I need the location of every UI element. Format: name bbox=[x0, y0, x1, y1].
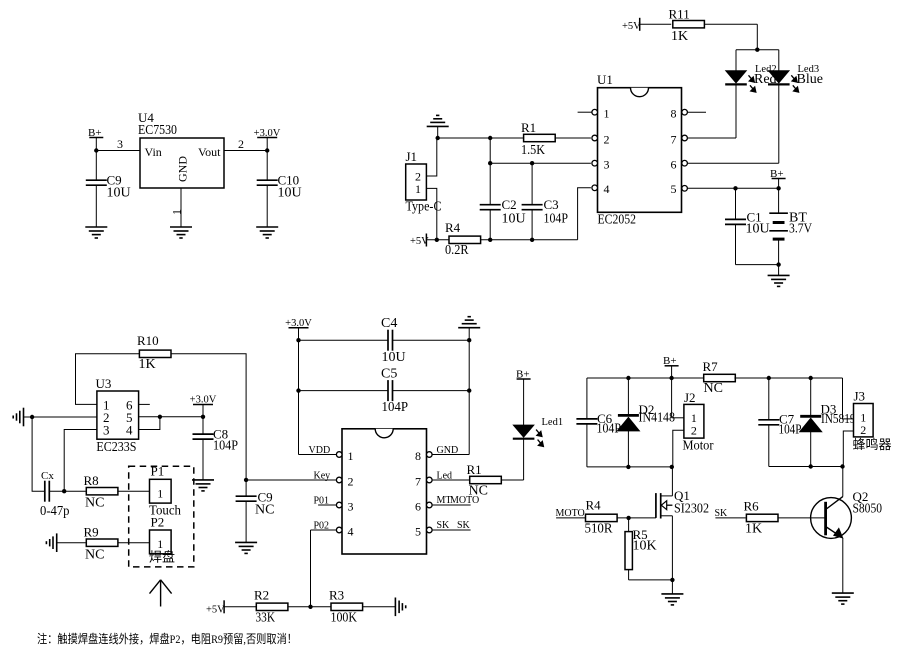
diode D3 IN5819 bbox=[800, 378, 856, 467]
capacitor C3 104P bbox=[522, 163, 569, 240]
junction bbox=[467, 388, 471, 392]
connector J3 buzzer bbox=[853, 389, 892, 453]
junction bbox=[30, 415, 34, 419]
svg-text:Cx: Cx bbox=[41, 470, 54, 482]
wire +3.0V to IC pin 1 VDD bbox=[299, 454, 337, 456]
wire ground rail to IC pin 8 GND bbox=[432, 328, 469, 455]
svg-text:5: 5 bbox=[671, 182, 677, 196]
IC U1 EC2052 bbox=[597, 72, 682, 228]
junction bbox=[776, 186, 780, 190]
capacitor C5 104P bbox=[381, 367, 408, 416]
svg-text:3: 3 bbox=[348, 499, 354, 513]
capacitor C9 bbox=[86, 151, 131, 228]
svg-text:U1: U1 bbox=[597, 72, 613, 87]
capacitor C8 104P bbox=[193, 417, 239, 480]
svg-text:Vin: Vin bbox=[145, 145, 162, 159]
svg-text:IN4148: IN4148 bbox=[639, 411, 676, 426]
svg-text:104P: 104P bbox=[544, 212, 569, 227]
pin 6 of U1 bbox=[682, 160, 688, 166]
resistor R1 NC (Led1) bbox=[467, 462, 502, 499]
svg-text:7: 7 bbox=[415, 474, 421, 488]
svg-text:P02: P02 bbox=[314, 520, 330, 531]
connector J2 Motor bbox=[683, 390, 714, 454]
svg-text:J2: J2 bbox=[684, 390, 696, 405]
IC main controller bbox=[342, 429, 427, 554]
svg-text:+5V: +5V bbox=[206, 605, 225, 616]
wire R1 to Led1 bbox=[501, 439, 523, 480]
svg-text:NC: NC bbox=[704, 381, 723, 396]
junction bbox=[296, 338, 300, 342]
capacitor C5 104P rail wire bbox=[299, 390, 470, 392]
power flag B+ at Led1 bbox=[516, 369, 531, 381]
svg-text:3: 3 bbox=[103, 423, 110, 438]
capacitor C10 bbox=[257, 151, 302, 228]
wire Led3 cathode to U1 pin 6 bbox=[687, 84, 778, 163]
svg-text:1: 1 bbox=[604, 107, 610, 121]
svg-text:R10: R10 bbox=[137, 333, 159, 348]
pin 4 of U1 bbox=[592, 185, 598, 191]
wire R4 to U1 pin 4 bbox=[481, 188, 591, 240]
wire rail to Q2 collector bbox=[842, 467, 844, 497]
svg-text:U3: U3 bbox=[96, 376, 112, 391]
wire U3 pin 5 to +3.0V bbox=[139, 416, 203, 418]
svg-text:IN5819: IN5819 bbox=[821, 412, 856, 427]
svg-text:P1: P1 bbox=[151, 464, 165, 479]
resistor R3 100K bbox=[329, 588, 363, 626]
wire J1 pin 1 to +5V rail bbox=[426, 188, 436, 239]
resistor R2 33K bbox=[254, 588, 288, 626]
junction bbox=[670, 465, 674, 469]
wire J3 pin 2 down to collector rail bbox=[843, 431, 853, 467]
capacitor C4 10U bbox=[381, 316, 406, 365]
ground (inverted) above J1 bbox=[427, 115, 449, 138]
ground bbox=[170, 227, 192, 238]
wire ground to U3 pin 2 bbox=[24, 416, 97, 418]
transistor Q1 SI2302 MOSFET bbox=[656, 488, 709, 519]
svg-text:GND: GND bbox=[437, 445, 459, 456]
svg-text:NC: NC bbox=[85, 496, 104, 511]
pin 6 MT stub with MOTO net label bbox=[427, 495, 480, 508]
regulator U4 EC7530 bbox=[138, 110, 224, 188]
pin 6 stub of U3 bbox=[139, 403, 150, 405]
wire ground net to R1 bbox=[438, 137, 524, 139]
svg-text:焊盘: 焊盘 bbox=[149, 550, 175, 565]
svg-text:1K: 1K bbox=[671, 29, 688, 44]
svg-text:SI2302: SI2302 bbox=[674, 502, 709, 517]
svg-text:1.5K: 1.5K bbox=[521, 143, 545, 158]
svg-text:10U: 10U bbox=[502, 212, 526, 227]
battery BT 3.7V bbox=[769, 188, 812, 264]
wire Q2 emitter to ground bbox=[842, 538, 844, 593]
net label SK wire bbox=[715, 508, 746, 519]
svg-text:2: 2 bbox=[348, 474, 354, 488]
pin 7 of U1 bbox=[682, 135, 688, 141]
junction bbox=[767, 376, 771, 380]
pin 1 (GND) wire of U4 bbox=[170, 188, 184, 227]
svg-text:6: 6 bbox=[415, 499, 421, 513]
net label MOTO wire bbox=[556, 508, 586, 519]
svg-text:MOTO: MOTO bbox=[450, 495, 479, 506]
svg-text:10U: 10U bbox=[278, 186, 302, 201]
svg-text:3: 3 bbox=[604, 158, 610, 172]
svg-text:J1: J1 bbox=[406, 149, 418, 164]
pin 1 of U1 bbox=[578, 109, 598, 115]
resistor R5 10K (vertical) bbox=[625, 518, 657, 580]
svg-text:EC2052: EC2052 bbox=[598, 213, 637, 228]
diode D2 IN4148 bbox=[617, 378, 675, 467]
svg-text:8: 8 bbox=[671, 107, 677, 121]
ground bbox=[832, 593, 854, 604]
svg-text:NC: NC bbox=[85, 548, 104, 563]
resistor R4 510R bbox=[585, 498, 618, 537]
junction bbox=[488, 161, 492, 165]
svg-text:Type-C: Type-C bbox=[406, 200, 442, 215]
ground (right) at R3 bbox=[395, 598, 405, 617]
svg-text:R6: R6 bbox=[744, 499, 760, 514]
svg-text:NC: NC bbox=[255, 503, 274, 518]
svg-text:1: 1 bbox=[170, 209, 184, 215]
capacitor C4 10U rail wire bbox=[299, 339, 470, 341]
svg-text:10K: 10K bbox=[633, 539, 657, 554]
wire R10 to Key net bbox=[171, 354, 246, 480]
capacitor C6 104P bbox=[576, 378, 621, 467]
pin 5 SK stub with SK net label bbox=[427, 520, 471, 533]
capacitor C7 104P bbox=[758, 378, 801, 467]
wire R9 to P2 bbox=[119, 542, 150, 544]
svg-text:6: 6 bbox=[671, 158, 677, 172]
wire R11 to LED rail bbox=[704, 24, 757, 50]
svg-text:1: 1 bbox=[348, 449, 354, 463]
junction bbox=[488, 136, 492, 140]
svg-text:7: 7 bbox=[671, 132, 677, 146]
wire B+ to U4 Vin bbox=[96, 150, 140, 152]
pin 5 of U1 bbox=[682, 186, 688, 192]
junction bbox=[296, 388, 300, 392]
wire B+ vertical to J2 pin 1 bbox=[672, 417, 684, 419]
wire R1 to U1 pin 2 bbox=[555, 137, 591, 139]
svg-text:2: 2 bbox=[604, 132, 610, 146]
svg-text:1: 1 bbox=[415, 182, 421, 196]
resistor R10 1K bbox=[137, 333, 171, 372]
arrow marker below touch pads bbox=[150, 580, 172, 607]
svg-text:C3: C3 bbox=[544, 197, 559, 212]
svg-text:P01: P01 bbox=[314, 495, 330, 506]
junction bbox=[733, 186, 737, 190]
LED Led1 bbox=[513, 417, 563, 447]
junction bbox=[809, 464, 813, 468]
resistor R6 1K bbox=[744, 499, 779, 537]
ground bbox=[85, 227, 107, 238]
svg-text:EC233S: EC233S bbox=[96, 440, 136, 455]
svg-text:GND: GND bbox=[176, 156, 190, 182]
svg-text:10U: 10U bbox=[746, 222, 770, 237]
svg-text:510R: 510R bbox=[585, 522, 614, 537]
junction bbox=[670, 578, 674, 582]
wire rail to Q1 drain bbox=[661, 467, 673, 496]
svg-text:1K: 1K bbox=[745, 522, 762, 537]
pin 3 number of U4 bbox=[117, 137, 123, 151]
ground bbox=[768, 275, 790, 286]
wire Led1 to B+ bbox=[523, 379, 525, 425]
power flag +5V at R2 bbox=[206, 600, 256, 615]
junction bbox=[530, 161, 534, 165]
motor low-side rail wire bbox=[587, 466, 673, 468]
wire ground to R9 bbox=[57, 542, 86, 544]
svg-text:R4: R4 bbox=[445, 220, 461, 235]
junction bbox=[755, 48, 759, 52]
svg-text:SK: SK bbox=[715, 508, 729, 519]
svg-text:2: 2 bbox=[860, 423, 866, 437]
power flag +3.0V bbox=[254, 128, 281, 151]
capacitor C1 10U bbox=[725, 188, 770, 264]
svg-text:Key: Key bbox=[314, 470, 331, 481]
resistor R9 NC bbox=[84, 525, 118, 563]
svg-text:4: 4 bbox=[126, 423, 133, 438]
ground bbox=[256, 227, 278, 238]
touch pad dashed outline bbox=[129, 466, 194, 567]
wire R5 bottom to Q1 source bbox=[629, 579, 673, 581]
resistor R11 1K bbox=[669, 7, 705, 45]
svg-text:Led1: Led1 bbox=[542, 417, 564, 428]
svg-text:SK: SK bbox=[437, 520, 451, 531]
pad P1 Touch bbox=[149, 464, 181, 519]
svg-text:2: 2 bbox=[691, 424, 697, 438]
svg-text:R8: R8 bbox=[84, 473, 99, 488]
svg-text:3.7V: 3.7V bbox=[789, 222, 812, 237]
svg-text:R3: R3 bbox=[329, 588, 344, 603]
resistor R4 0.2R bbox=[445, 220, 481, 258]
power flag +3.0V at C8 bbox=[190, 395, 217, 417]
wire C1/BT bottom to ground bbox=[736, 265, 779, 276]
svg-text:104P: 104P bbox=[779, 423, 802, 438]
junction bbox=[244, 478, 248, 482]
wire U1 pin 5 to B+ bbox=[687, 187, 778, 189]
wire Q1 source to ground bbox=[671, 516, 673, 594]
svg-text:5: 5 bbox=[415, 524, 421, 538]
wire J2 pin 2 down to drain rail bbox=[673, 430, 684, 467]
junction bbox=[62, 489, 66, 493]
wire R2 to R3 bbox=[288, 606, 331, 608]
svg-text:EC7530: EC7530 bbox=[138, 123, 177, 138]
wire U3 pin 3 down to R8 net bbox=[64, 430, 97, 492]
wire U4 Vout to +3.0V bbox=[224, 137, 267, 151]
svg-text:8: 8 bbox=[415, 449, 421, 463]
junction bbox=[201, 415, 205, 419]
LED supply rail wire bbox=[736, 50, 779, 71]
svg-text:Vout: Vout bbox=[198, 145, 221, 159]
transistor Q2 S8050 bbox=[811, 489, 882, 538]
pin 8 GND bbox=[427, 445, 459, 457]
svg-text:104P: 104P bbox=[213, 439, 238, 454]
ground (left) at U3 pin 2 bbox=[13, 408, 23, 427]
svg-text:C5: C5 bbox=[381, 367, 397, 382]
IC U3 EC233S bbox=[96, 376, 139, 455]
svg-text:33K: 33K bbox=[256, 611, 276, 626]
junction bbox=[488, 238, 492, 242]
wire U1 pin 3 net bbox=[490, 162, 591, 164]
svg-text:R1: R1 bbox=[467, 462, 482, 477]
svg-text:10U: 10U bbox=[107, 186, 131, 201]
junction bbox=[840, 464, 844, 468]
pin 7 Led wire to R1 bbox=[427, 470, 470, 483]
svg-text:4: 4 bbox=[348, 524, 354, 538]
junction bbox=[530, 238, 534, 242]
wire U3 pin 4 to pin 5 net bbox=[139, 417, 160, 430]
svg-text:2: 2 bbox=[238, 137, 244, 151]
resistor R7 NC bbox=[703, 359, 736, 396]
svg-text:104P: 104P bbox=[382, 400, 409, 415]
power flag B+ (regulator input) bbox=[88, 127, 103, 151]
pad P2 solder pad bbox=[149, 515, 175, 565]
wire junction down to Cx bbox=[32, 417, 45, 491]
power flag +5V at R11 bbox=[622, 18, 671, 32]
wire R8 to P1 bbox=[119, 490, 150, 492]
svg-text:3: 3 bbox=[117, 137, 123, 151]
capacitor C9 NC bbox=[236, 480, 275, 543]
pin 4 P02 wire bbox=[311, 520, 343, 607]
svg-text:0.2R: 0.2R bbox=[445, 243, 469, 258]
power flag B+ at battery bbox=[770, 168, 786, 188]
svg-text:100K: 100K bbox=[331, 611, 358, 626]
wire Led2 cathode to U1 pin 7 bbox=[687, 84, 736, 138]
wire Cx to R8 bbox=[49, 490, 85, 492]
note text bbox=[37, 631, 297, 646]
svg-text:R4: R4 bbox=[586, 498, 602, 513]
buzzer low-side rail wire bbox=[769, 466, 844, 468]
svg-text:R11: R11 bbox=[669, 7, 690, 22]
svg-text:Motor: Motor bbox=[683, 439, 714, 454]
svg-text:蜂鸣器: 蜂鸣器 bbox=[853, 437, 892, 452]
junction bbox=[809, 376, 813, 380]
svg-text:R7: R7 bbox=[703, 359, 719, 374]
resistor R8 NC bbox=[84, 473, 118, 511]
power flag +5V at J1 bbox=[410, 234, 449, 248]
svg-text:R2: R2 bbox=[254, 588, 269, 603]
junction bbox=[467, 338, 471, 342]
svg-text:0-47p: 0-47p bbox=[40, 504, 70, 519]
svg-text:C4: C4 bbox=[381, 316, 397, 331]
svg-text:1K: 1K bbox=[139, 357, 156, 372]
ground (inverted) at C4/C5 bbox=[458, 317, 480, 328]
resistor R1 1.5K bbox=[521, 120, 555, 158]
svg-text:MOTO: MOTO bbox=[556, 508, 585, 519]
wire J1 pin 2 to ground net bbox=[426, 138, 436, 176]
svg-text:SK: SK bbox=[457, 520, 471, 531]
capacitor Cx 0-47p bbox=[40, 470, 70, 519]
pin 2 Key wire bbox=[246, 470, 342, 483]
svg-text:4: 4 bbox=[604, 182, 610, 196]
ground bbox=[235, 542, 257, 553]
svg-text:+5V: +5V bbox=[622, 21, 641, 32]
pin 1 VDD bbox=[309, 445, 343, 457]
connector J1 bbox=[406, 149, 442, 215]
svg-text:104P: 104P bbox=[597, 422, 622, 437]
buzzer supply rail wire bbox=[734, 378, 853, 419]
svg-text:1: 1 bbox=[157, 487, 163, 501]
junction bbox=[158, 415, 162, 419]
wire R3 to ground bbox=[363, 606, 396, 608]
junction bbox=[776, 262, 780, 266]
junction bbox=[626, 465, 630, 469]
power flag B+ at motor bbox=[663, 355, 679, 418]
pin 2 of U1 bbox=[592, 135, 598, 141]
svg-text:S8050: S8050 bbox=[853, 502, 883, 517]
junction bbox=[94, 148, 98, 152]
capacitor C2 10U bbox=[480, 138, 526, 240]
wire R6 to Q2 base bbox=[779, 517, 826, 519]
LED Led3 Blue bbox=[768, 64, 823, 92]
junction bbox=[435, 238, 439, 242]
svg-text:10U: 10U bbox=[382, 350, 406, 365]
svg-text:J3: J3 bbox=[854, 389, 866, 404]
ground (left) at R9 bbox=[46, 533, 56, 552]
pin 3 of U1 bbox=[592, 160, 598, 166]
wire U3 pin 1 to R10 bbox=[76, 354, 140, 405]
junction bbox=[308, 605, 312, 609]
svg-text:R1: R1 bbox=[521, 120, 536, 135]
junction bbox=[626, 376, 630, 380]
svg-text:P2: P2 bbox=[151, 515, 165, 530]
svg-text:R9: R9 bbox=[84, 525, 99, 540]
svg-text:VDD: VDD bbox=[309, 445, 331, 456]
ground bbox=[661, 594, 683, 605]
junction bbox=[265, 148, 269, 152]
junction bbox=[436, 136, 440, 140]
power flag +3.0V main bbox=[285, 318, 312, 455]
junction bbox=[669, 376, 673, 380]
ground bbox=[192, 480, 214, 491]
svg-text:C2: C2 bbox=[502, 197, 517, 212]
svg-text:Blue: Blue bbox=[797, 72, 823, 87]
junction bbox=[626, 516, 630, 520]
LED Led2 Red bbox=[725, 64, 776, 92]
motor supply rail wire bbox=[587, 377, 705, 379]
wire R4 to Q1 gate bbox=[617, 517, 656, 519]
svg-text:注：触摸焊盘连线外接，焊盘P2，电阻R9预留,否则取消！: 注：触摸焊盘连线外接，焊盘P2，电阻R9预留,否则取消！ bbox=[37, 631, 297, 646]
pin 8 of U1 bbox=[682, 109, 706, 115]
svg-text:Led: Led bbox=[437, 470, 453, 481]
pin 3 P01 stub bbox=[314, 495, 343, 508]
